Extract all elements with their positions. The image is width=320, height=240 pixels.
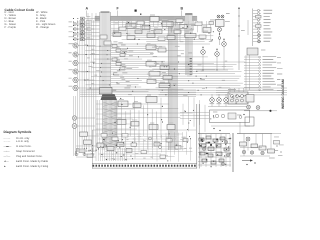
right top connector ladder bbox=[248, 9, 272, 47]
cable colour code legend title bbox=[5, 8, 35, 12]
divider line bottom right bbox=[232, 133, 234, 172]
wire loom junction and lower loom bbox=[96, 88, 141, 162]
bottom right sub-circuit bbox=[237, 134, 284, 166]
right mid connector ladder bbox=[244, 48, 283, 91]
upper middle relay cluster bbox=[111, 15, 214, 43]
scattered tiny labels bbox=[102, 46, 227, 159]
wire third vertical loom bbox=[185, 13, 193, 75]
cable colour code legend rows bbox=[0, 0, 288, 1]
wire secondary vertical loom bbox=[168, 20, 177, 150]
svg-text:A: A bbox=[86, 7, 89, 11]
wire top harness band bbox=[95, 10, 197, 22]
bulb lollipops center right bbox=[196, 8, 240, 71]
lower center components bbox=[80, 90, 196, 149]
svg-text:F: F bbox=[117, 7, 120, 11]
top right component chain bbox=[209, 13, 245, 45]
bottom dashed border band bbox=[92, 164, 197, 169]
lower left components and earths bbox=[72, 116, 99, 158]
left column lamp components bbox=[69, 21, 100, 90]
svg-text:B: B bbox=[181, 7, 184, 11]
wire main vertical loom bbox=[100, 11, 111, 95]
diagram symbols legend title bbox=[4, 130, 32, 134]
bottom box right border bbox=[197, 104, 199, 169]
diagram symbols legend rows bbox=[0, 0, 288, 1]
column letter labels bbox=[86, 7, 184, 17]
wire right bus horizontals bbox=[216, 88, 287, 134]
bottom right dense cluster bbox=[198, 134, 231, 168]
bottom box left and top border bbox=[92, 130, 196, 169]
center component cluster bbox=[146, 43, 172, 87]
wire left vertical bus bbox=[74, 20, 96, 156]
upper left connectors bbox=[73, 13, 100, 41]
bottom box interior bbox=[96, 131, 193, 161]
vertical WIRING DIAGRAM label bbox=[281, 79, 285, 109]
wire center-right horizontals bbox=[152, 62, 245, 96]
panel box right bbox=[180, 97, 254, 132]
instrument cluster right bbox=[208, 88, 277, 112]
wire mid horizontal bus bbox=[81, 35, 215, 92]
